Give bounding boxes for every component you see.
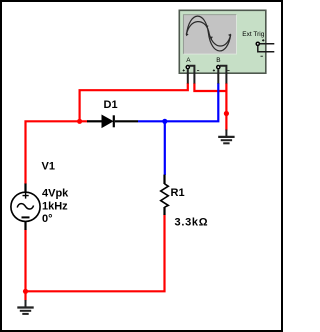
wire: V1 top to diode anode junction (red) <box>26 121 88 184</box>
svg-text:4Vpk: 4Vpk <box>42 188 69 200</box>
node: R1 top junction (blue) <box>162 119 167 124</box>
wire: scope B- down to ground (red) <box>225 83 227 131</box>
ground (bottom left) <box>17 300 33 314</box>
wire: V1 bottom to bottom ground junction (red) <box>24 230 26 292</box>
terminal B <box>217 66 220 69</box>
scope waveform small <box>186 22 230 46</box>
node: bottom ground junction <box>23 289 28 294</box>
svg-text:D1: D1 <box>104 99 118 111</box>
node: ground net junction <box>224 111 229 116</box>
wire: bottom horizontal to R1 bottom (red) <box>26 215 165 292</box>
wire: junction up and right to scope A+ (red) <box>80 83 188 121</box>
oscilloscope XSC1 <box>179 10 274 83</box>
wire: junction down to bottom ground (red) <box>24 291 26 300</box>
svg-text:Ext Trig: Ext Trig <box>242 31 264 38</box>
svg-text:B: B <box>216 57 220 64</box>
wire: scope A- down and right to ground net (red) <box>194 83 226 91</box>
svg-text:A: A <box>186 57 191 64</box>
node: diode anode junction <box>77 119 82 124</box>
wire: diode cathode to scope B+ (blue) <box>138 83 218 121</box>
diode D1 <box>87 115 138 127</box>
scope screen <box>183 15 236 55</box>
ext trig terminal <box>256 42 259 45</box>
ground (top right) <box>218 130 234 144</box>
scope waveform big <box>186 16 230 51</box>
waveform arrowheads <box>186 33 189 36</box>
resistor R1 <box>161 175 169 215</box>
svg-text:3.3kΩ: 3.3kΩ <box>175 217 209 229</box>
svg-text:1kHz: 1kHz <box>42 200 68 212</box>
wire: junction down to R1 top (blue) <box>164 121 166 175</box>
svg-text:V1: V1 <box>42 161 55 173</box>
svg-text:0°: 0° <box>42 213 53 225</box>
svg-text:R1: R1 <box>171 187 185 199</box>
AC source V1 <box>11 184 40 231</box>
terminal A <box>186 66 189 69</box>
